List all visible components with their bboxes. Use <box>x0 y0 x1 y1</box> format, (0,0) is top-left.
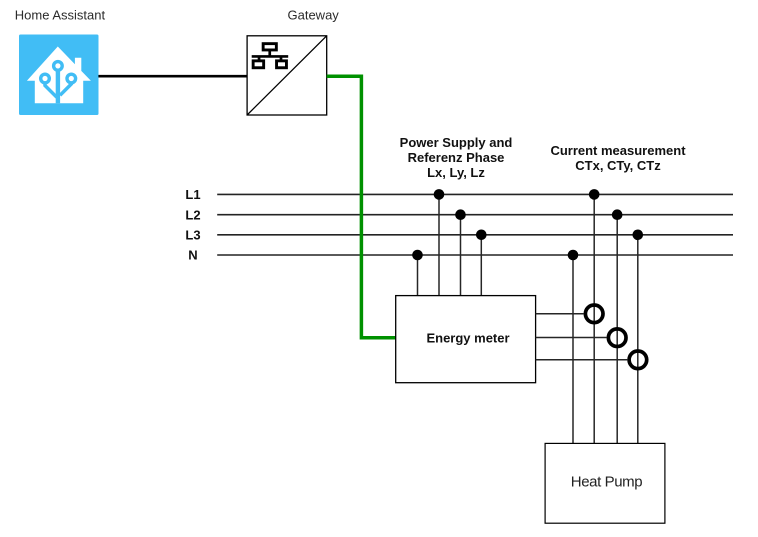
svg-text:L2: L2 <box>185 207 200 222</box>
svg-text:CTx, CTy, CTz: CTx, CTy, CTz <box>575 158 661 173</box>
svg-text:L1: L1 <box>185 187 200 202</box>
svg-text:N: N <box>188 248 197 263</box>
svg-text:L3: L3 <box>185 227 200 242</box>
svg-text:Energy meter: Energy meter <box>426 331 509 346</box>
svg-text:Power Supply and: Power Supply and <box>400 135 513 150</box>
svg-text:Gateway: Gateway <box>288 8 340 23</box>
svg-text:Current measurement: Current measurement <box>550 143 686 158</box>
svg-text:Home Assistant: Home Assistant <box>15 8 106 23</box>
svg-text:Heat Pump: Heat Pump <box>571 473 642 490</box>
svg-text:Referenz Phase: Referenz Phase <box>408 150 505 165</box>
svg-text:Lx, Ly, Lz: Lx, Ly, Lz <box>427 165 485 180</box>
